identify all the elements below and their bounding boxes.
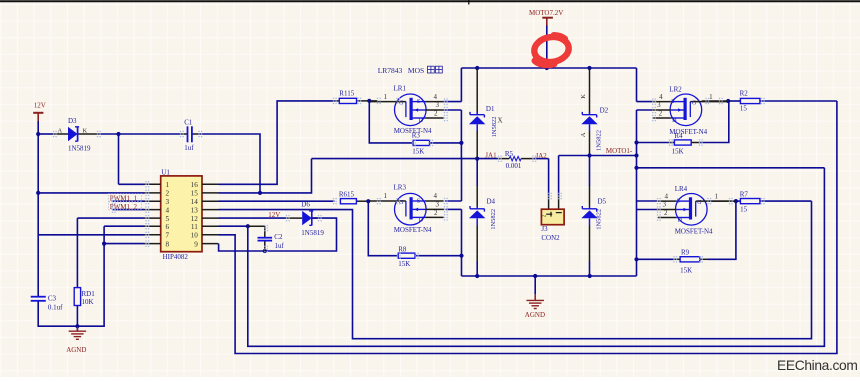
svg-text:D: D: [672, 118, 677, 124]
svg-text:4: 4: [434, 192, 438, 200]
svg-text:13: 13: [191, 206, 199, 214]
svg-text:1N5819: 1N5819: [301, 229, 324, 237]
svg-text:16: 16: [191, 181, 199, 189]
svg-text:MOSFET-N4: MOSFET-N4: [669, 128, 707, 136]
svg-text:D: D: [419, 118, 424, 124]
svg-text:3: 3: [166, 198, 170, 206]
svg-text:4: 4: [665, 192, 669, 200]
svg-text:LR3: LR3: [394, 184, 407, 192]
svg-text:G: G: [692, 100, 697, 106]
svg-text:D6: D6: [301, 201, 310, 209]
svg-text:12: 12: [191, 215, 199, 223]
svg-text:14: 14: [191, 198, 199, 206]
svg-text:15K: 15K: [412, 148, 424, 156]
svg-text:1N5819: 1N5819: [68, 144, 91, 152]
svg-text:R9: R9: [681, 249, 690, 257]
svg-text:10K: 10K: [82, 298, 94, 306]
svg-text:MOSFET-N4: MOSFET-N4: [394, 226, 432, 234]
svg-text:2: 2: [434, 110, 438, 118]
svg-text:MOTO7.2V: MOTO7.2V: [529, 9, 563, 17]
svg-text:3: 3: [657, 101, 661, 109]
svg-text:AGND: AGND: [66, 346, 86, 354]
svg-text:S: S: [671, 99, 674, 105]
svg-text:EEChina.com: EEChina.com: [777, 358, 858, 373]
svg-text:5: 5: [166, 215, 170, 223]
svg-text:0.1uf: 0.1uf: [48, 304, 63, 312]
svg-text:S: S: [417, 99, 420, 105]
svg-text:D5: D5: [598, 198, 607, 206]
svg-text:3: 3: [663, 201, 667, 209]
svg-text:10: 10: [191, 232, 199, 240]
svg-text:LR7843 MOS: LR7843 MOS: [378, 66, 424, 75]
svg-text:1: 1: [166, 181, 170, 189]
svg-text:A: A: [580, 132, 587, 137]
svg-text:15: 15: [740, 105, 748, 113]
svg-text:MOSFET-N4: MOSFET-N4: [394, 127, 432, 135]
svg-text:R8: R8: [398, 245, 407, 253]
svg-text:1N5822: 1N5822: [596, 130, 603, 151]
svg-text:JA2: JA2: [536, 152, 548, 160]
svg-text:D3: D3: [68, 117, 77, 125]
svg-text:1uf: 1uf: [184, 144, 194, 152]
svg-text:LR4: LR4: [675, 185, 688, 193]
svg-text:X: X: [498, 116, 503, 124]
svg-text:K: K: [83, 127, 88, 134]
svg-text:1N5822: 1N5822: [490, 209, 497, 230]
svg-text:HIP4082: HIP4082: [163, 253, 189, 261]
svg-text:15: 15: [740, 206, 748, 214]
svg-text:1N5822: 1N5822: [596, 209, 603, 230]
svg-text:R2: R2: [740, 90, 749, 98]
svg-text:MOTO1-: MOTO1-: [606, 147, 633, 155]
svg-text:12V: 12V: [34, 102, 46, 110]
svg-text:11: 11: [191, 223, 198, 231]
svg-text:CON2: CON2: [541, 234, 560, 242]
svg-text:6: 6: [166, 223, 170, 231]
svg-text:2: 2: [664, 209, 668, 217]
svg-text:MOSFET-N4: MOSFET-N4: [675, 228, 713, 236]
svg-text:1: 1: [384, 192, 388, 200]
svg-text:R615: R615: [339, 191, 355, 199]
svg-text:4: 4: [166, 206, 170, 214]
svg-text:A: A: [58, 127, 63, 134]
svg-text:2: 2: [166, 190, 170, 198]
svg-text:15K: 15K: [398, 260, 410, 268]
svg-text:9: 9: [194, 240, 198, 248]
svg-text:4: 4: [659, 93, 663, 101]
svg-text:15: 15: [191, 190, 199, 198]
svg-text:D: D: [678, 218, 683, 224]
svg-text:8: 8: [166, 240, 170, 248]
svg-text:D1: D1: [486, 105, 495, 113]
svg-text:U1: U1: [161, 169, 170, 177]
svg-text:D: D: [419, 218, 424, 224]
svg-text:12V: 12V: [268, 211, 280, 219]
svg-text:3: 3: [436, 201, 440, 209]
svg-text:LR1: LR1: [394, 84, 407, 92]
svg-text:C1: C1: [184, 118, 193, 126]
svg-text:R7: R7: [740, 191, 749, 199]
svg-text:1: 1: [715, 192, 719, 200]
svg-text:1: 1: [384, 93, 388, 101]
svg-text:R115: R115: [339, 89, 354, 97]
svg-text:1: 1: [709, 93, 713, 101]
svg-text:C3: C3: [48, 295, 57, 303]
svg-text:2: 2: [659, 110, 663, 118]
svg-text:S: S: [677, 199, 680, 205]
svg-text:LR2: LR2: [669, 86, 682, 94]
svg-text:JA1: JA1: [485, 152, 497, 160]
svg-text:D2: D2: [600, 107, 609, 115]
svg-text:G: G: [697, 200, 702, 206]
svg-text:S: S: [417, 199, 420, 205]
svg-text:0.001: 0.001: [506, 162, 522, 170]
svg-text:R5: R5: [505, 150, 514, 158]
svg-text:K: K: [580, 94, 587, 99]
svg-text:3: 3: [436, 101, 440, 109]
svg-text:AGND: AGND: [525, 311, 545, 319]
svg-text:D4: D4: [487, 198, 496, 206]
svg-text:15K: 15K: [672, 148, 684, 156]
svg-text:2: 2: [434, 209, 438, 217]
svg-text:4: 4: [434, 93, 438, 101]
svg-text:1uf: 1uf: [275, 242, 285, 250]
svg-text:C2: C2: [274, 233, 283, 241]
svg-text:J3: J3: [541, 225, 548, 233]
svg-text:15K: 15K: [680, 266, 692, 274]
svg-text:7: 7: [166, 232, 170, 240]
